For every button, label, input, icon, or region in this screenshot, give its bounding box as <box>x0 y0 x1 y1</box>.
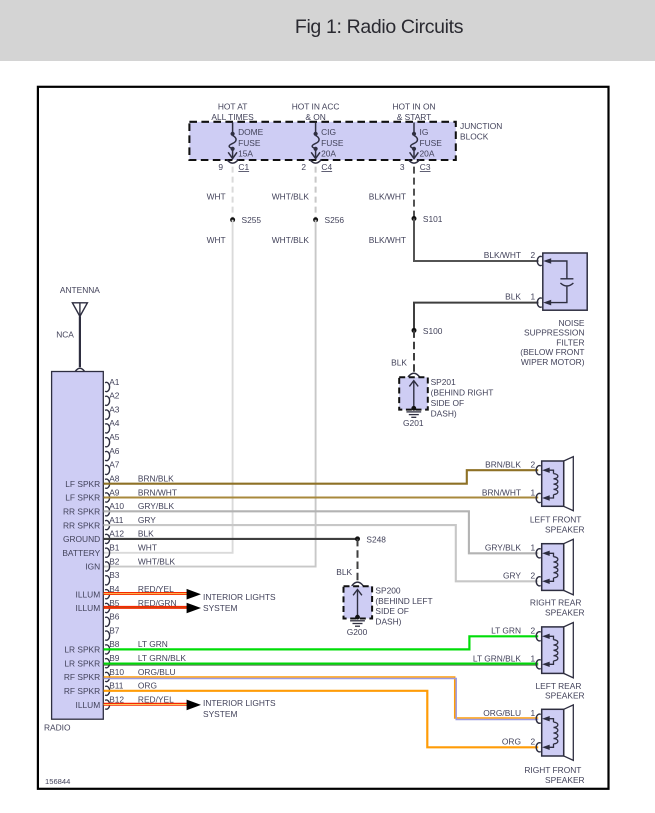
svg-text:WIPER MOTOR): WIPER MOTOR) <box>521 357 585 367</box>
antenna lead NCA <box>79 316 81 367</box>
svg-text:GRY/BLK: GRY/BLK <box>485 543 522 553</box>
svg-text:SP200: SP200 <box>375 585 400 595</box>
svg-text:A10: A10 <box>109 501 124 511</box>
svg-text:ORG: ORG <box>138 681 157 691</box>
svg-text:RADIO: RADIO <box>44 722 71 732</box>
wire BRN/WHT A9 to left front speaker pin 1 <box>104 496 539 498</box>
svg-text:A2: A2 <box>109 391 120 401</box>
radio pin A3 <box>105 410 110 419</box>
svg-text:BLK/WHT: BLK/WHT <box>484 250 521 260</box>
svg-text:BATTERY: BATTERY <box>62 548 100 558</box>
svg-text:SIDE OF: SIDE OF <box>431 398 465 408</box>
svg-text:FUSE: FUSE <box>321 138 344 148</box>
svg-text:GRY: GRY <box>503 571 521 581</box>
svg-text:WHT/BLK: WHT/BLK <box>272 192 310 202</box>
svg-text:1: 1 <box>531 654 536 664</box>
radio pin A4 <box>105 424 110 433</box>
radio pin A2 <box>105 396 110 405</box>
ground G201 <box>406 412 421 417</box>
svg-text:SPEAKER: SPEAKER <box>545 524 585 534</box>
radio pin B5 <box>105 603 110 612</box>
svg-text:LT GRN: LT GRN <box>491 626 521 636</box>
svg-text:(BELOW FRONT: (BELOW FRONT <box>520 347 584 357</box>
svg-text:LT GRN/BLK: LT GRN/BLK <box>138 653 187 663</box>
svg-text:GRY: GRY <box>138 515 156 525</box>
radio pin B7 <box>105 631 110 640</box>
svg-text:WHT: WHT <box>207 192 226 202</box>
svg-text:(BEHIND LEFT: (BEHIND LEFT <box>375 596 432 606</box>
svg-text:20A: 20A <box>420 148 435 158</box>
svg-text:BLK: BLK <box>138 529 154 539</box>
svg-text:BLK/WHT: BLK/WHT <box>369 192 406 202</box>
svg-text:HOT AT: HOT AT <box>218 101 247 111</box>
svg-text:INTERIOR LIGHTS: INTERIOR LIGHTS <box>203 592 276 602</box>
svg-text:RF SPKR: RF SPKR <box>64 672 100 682</box>
svg-text:20A: 20A <box>321 148 336 158</box>
wire LT GRN/BLK B9 to left rear speaker pin 1 <box>104 662 539 664</box>
svg-text:S101: S101 <box>423 214 443 224</box>
junction block <box>189 122 455 160</box>
svg-text:2: 2 <box>301 162 306 172</box>
splice S255 <box>230 217 235 222</box>
svg-text:BLK/WHT: BLK/WHT <box>369 235 406 245</box>
svg-text:GRY/BLK: GRY/BLK <box>138 501 175 511</box>
antenna connector arc at radio <box>75 368 84 371</box>
diagram border frame <box>38 87 609 789</box>
radio pin B2 <box>105 562 110 571</box>
radio pin B3 <box>105 576 110 585</box>
radio pin B1 <box>105 548 110 557</box>
radio pin B9 <box>105 659 110 668</box>
svg-text:1: 1 <box>531 708 536 718</box>
svg-text:JUNCTION: JUNCTION <box>460 121 502 131</box>
svg-text:B2: B2 <box>109 556 120 566</box>
svg-text:C4: C4 <box>321 162 332 172</box>
svg-text:B6: B6 <box>109 612 120 622</box>
svg-text:WHT: WHT <box>207 235 226 245</box>
wire RED/YEL B12 <box>104 703 190 706</box>
svg-text:SPEAKER: SPEAKER <box>545 775 585 785</box>
svg-text:LEFT REAR: LEFT REAR <box>535 681 581 691</box>
speaker LEFT FRONT SPEAKER <box>564 457 574 511</box>
wire BLK dashed S248 to SP200 <box>357 539 359 581</box>
svg-text:ORG/BLU: ORG/BLU <box>138 667 176 677</box>
svg-text:& ON: & ON <box>305 112 325 122</box>
radio <box>52 372 104 720</box>
svg-text:B8: B8 <box>109 639 120 649</box>
wire ORG/BLU B10 to right front speaker pin 1 <box>104 677 539 718</box>
svg-text:1: 1 <box>531 543 536 553</box>
radio pin A8 <box>105 479 110 488</box>
wire WHT S255 to radio B1 <box>104 220 233 553</box>
svg-text:SUPPRESSION: SUPPRESSION <box>524 328 585 338</box>
svg-text:A3: A3 <box>109 404 120 414</box>
svg-text:B3: B3 <box>109 570 120 580</box>
svg-text:2: 2 <box>531 571 536 581</box>
svg-text:C1: C1 <box>238 162 249 172</box>
svg-text:RIGHT FRONT: RIGHT FRONT <box>524 765 581 775</box>
radio pin B10 <box>105 672 110 681</box>
svg-text:BLK: BLK <box>391 358 407 368</box>
wire BRN/BLK A8 to left front speaker pin 2 <box>104 470 539 484</box>
svg-text:FUSE: FUSE <box>238 138 261 148</box>
svg-text:CIG: CIG <box>321 127 336 137</box>
filter pin 2 connector <box>537 256 542 265</box>
svg-text:S255: S255 <box>242 215 262 225</box>
fuse CIG 20A <box>311 123 320 159</box>
svg-text:BLK: BLK <box>505 291 521 301</box>
svg-text:LR SPKR: LR SPKR <box>64 658 100 668</box>
svg-text:RF SPKR: RF SPKR <box>64 686 100 696</box>
svg-text:LR SPKR: LR SPKR <box>64 645 100 655</box>
svg-text:Fig 1: Radio Circuits: Fig 1: Radio Circuits <box>295 16 464 38</box>
svg-text:BRN/WHT: BRN/WHT <box>482 487 521 497</box>
title banner <box>0 0 655 61</box>
svg-text:3: 3 <box>400 162 405 172</box>
svg-text:IG: IG <box>420 127 429 137</box>
svg-text:RR SPKR: RR SPKR <box>63 520 100 530</box>
wire BLK dashed S100 to SP201 <box>413 330 415 372</box>
svg-text:& START: & START <box>397 112 432 122</box>
svg-text:INTERIOR LIGHTS: INTERIOR LIGHTS <box>203 698 276 708</box>
svg-text:RIGHT REAR: RIGHT REAR <box>530 598 582 608</box>
svg-text:LT GRN/BLK: LT GRN/BLK <box>473 654 522 664</box>
svg-text:BRN/WHT: BRN/WHT <box>138 487 177 497</box>
svg-text:1: 1 <box>531 291 536 301</box>
wire BLK/WHT dashed C3 to S101 <box>413 167 415 217</box>
radio pin A7 <box>105 465 110 474</box>
svg-text:B11: B11 <box>109 681 124 691</box>
svg-text:B10: B10 <box>109 667 124 677</box>
connector C4 pin 2 <box>310 159 322 163</box>
svg-text:RR SPKR: RR SPKR <box>63 506 100 516</box>
svg-text:SPEAKER: SPEAKER <box>545 691 585 701</box>
wire ORG B11 to right front speaker pin 2 <box>104 691 539 748</box>
svg-text:ORG: ORG <box>502 737 521 747</box>
svg-text:(BEHIND RIGHT: (BEHIND RIGHT <box>431 388 494 398</box>
wire GRY A11 to right rear speaker pin 2 <box>104 525 539 581</box>
radio pin A9 <box>105 493 110 502</box>
filter pin 1 connector <box>537 298 542 307</box>
svg-text:G200: G200 <box>347 627 368 637</box>
radio pin A1 <box>105 382 110 391</box>
speaker RIGHT REAR SPEAKER <box>564 539 574 595</box>
connector C1 pin 9 <box>227 159 239 163</box>
svg-text:A12: A12 <box>109 529 124 539</box>
svg-text:LF SPKR: LF SPKR <box>65 493 100 503</box>
wire WHT/BLK dashed C4 to S256 <box>315 167 317 218</box>
svg-text:BRN/BLK: BRN/BLK <box>138 473 174 483</box>
svg-text:A9: A9 <box>109 487 120 497</box>
svg-text:ORG/BLU: ORG/BLU <box>483 708 521 718</box>
svg-text:1: 1 <box>531 487 536 497</box>
svg-text:S100: S100 <box>423 326 443 336</box>
wire LT GRN B8 to left rear speaker pin 2 <box>104 636 539 649</box>
svg-text:A1: A1 <box>109 377 120 387</box>
svg-text:DASH): DASH) <box>431 408 457 418</box>
svg-text:BLOCK: BLOCK <box>460 132 489 142</box>
wire GRY/BLK A10 to right rear speaker pin 1 <box>104 511 539 553</box>
svg-text:SYSTEM: SYSTEM <box>203 709 237 719</box>
svg-text:SP201: SP201 <box>431 377 456 387</box>
svg-text:SIDE OF: SIDE OF <box>375 606 409 616</box>
fuse DOME 15A <box>228 123 237 159</box>
radio pin A6 <box>105 451 110 460</box>
svg-text:WHT/BLK: WHT/BLK <box>138 556 176 566</box>
wire WHT/BLK S256 to radio B2 <box>104 220 316 567</box>
svg-text:LT GRN: LT GRN <box>138 639 168 649</box>
radio pin A10 <box>105 507 110 516</box>
svg-text:DOME: DOME <box>238 127 264 137</box>
svg-text:2: 2 <box>531 626 536 636</box>
svg-text:HOT IN ACC: HOT IN ACC <box>292 101 340 111</box>
svg-text:2: 2 <box>531 737 536 747</box>
svg-text:LEFT FRONT: LEFT FRONT <box>530 515 582 525</box>
splice pack SP200 <box>352 582 364 586</box>
svg-text:A11: A11 <box>109 515 124 525</box>
wire RED/YEL B4 <box>104 592 190 595</box>
svg-text:GROUND: GROUND <box>63 534 100 544</box>
svg-text:A8: A8 <box>109 473 120 483</box>
radio pin B11 <box>105 686 110 695</box>
svg-text:2: 2 <box>531 460 536 470</box>
svg-text:156844: 156844 <box>45 777 70 786</box>
svg-text:ILLUM: ILLUM <box>76 603 101 613</box>
svg-text:9: 9 <box>218 162 223 172</box>
svg-text:ILLUM: ILLUM <box>76 589 101 599</box>
svg-text:A5: A5 <box>109 432 120 442</box>
svg-text:NCA: NCA <box>56 330 74 340</box>
svg-text:SPEAKER: SPEAKER <box>545 608 585 618</box>
speaker RIGHT FRONT SPEAKER <box>564 705 574 761</box>
svg-text:SYSTEM: SYSTEM <box>203 603 237 613</box>
ground G200 <box>350 621 365 626</box>
noise suppression filter box <box>543 253 587 310</box>
radio pin B12 <box>105 700 110 709</box>
capacitor inside filter <box>549 261 573 303</box>
radio pin B6 <box>105 617 110 626</box>
svg-text:FILTER: FILTER <box>556 337 584 347</box>
svg-text:LF SPKR: LF SPKR <box>65 479 100 489</box>
radio pin A11 <box>105 521 110 530</box>
svg-text:ANTENNA: ANTENNA <box>60 285 100 295</box>
svg-text:S248: S248 <box>366 534 386 544</box>
svg-text:HOT IN ON: HOT IN ON <box>392 101 435 111</box>
svg-text:A4: A4 <box>109 418 120 428</box>
svg-text:DASH): DASH) <box>375 617 401 627</box>
fuse IG 20A <box>410 123 419 159</box>
svg-text:A7: A7 <box>109 460 120 470</box>
svg-text:B1: B1 <box>109 543 120 553</box>
svg-text:G201: G201 <box>403 418 424 428</box>
svg-text:ALL TIMES: ALL TIMES <box>211 112 254 122</box>
wire BLK A12 to S248 <box>104 538 358 540</box>
wire BLK filter pin 1 to S100 <box>414 303 539 331</box>
splice S101 <box>412 216 417 221</box>
svg-text:B9: B9 <box>109 653 120 663</box>
svg-text:IGN: IGN <box>85 562 100 572</box>
radio pin A12 <box>105 534 110 543</box>
svg-text:NOISE: NOISE <box>558 318 584 328</box>
svg-text:ILLUM: ILLUM <box>76 700 101 710</box>
radio pin B4 <box>105 590 109 599</box>
splice S248 <box>355 536 360 541</box>
wire RED/GRN B5 <box>104 606 190 609</box>
radio pin A5 <box>105 438 110 447</box>
svg-text:S256: S256 <box>325 215 345 225</box>
wire WHT dashed C1 to S255 <box>232 167 234 218</box>
wire BLK/WHT S101 to filter pin 2 <box>414 219 539 262</box>
svg-text:WHT/BLK: WHT/BLK <box>272 235 310 245</box>
splice S100 <box>412 328 417 333</box>
svg-text:15A: 15A <box>238 148 253 158</box>
splice S256 <box>313 217 318 222</box>
svg-text:BRN/BLK: BRN/BLK <box>485 460 521 470</box>
radio pin B8 <box>105 645 110 654</box>
speaker LEFT REAR SPEAKER <box>564 623 574 678</box>
svg-text:C3: C3 <box>420 162 431 172</box>
svg-text:FUSE: FUSE <box>420 138 443 148</box>
connector C3 pin 3 <box>408 159 420 163</box>
svg-text:WHT: WHT <box>138 543 157 553</box>
splice pack SP201 <box>408 373 420 377</box>
svg-text:BLK: BLK <box>336 567 352 577</box>
svg-text:A6: A6 <box>109 446 120 456</box>
svg-text:B7: B7 <box>109 625 120 635</box>
svg-text:2: 2 <box>531 250 536 260</box>
